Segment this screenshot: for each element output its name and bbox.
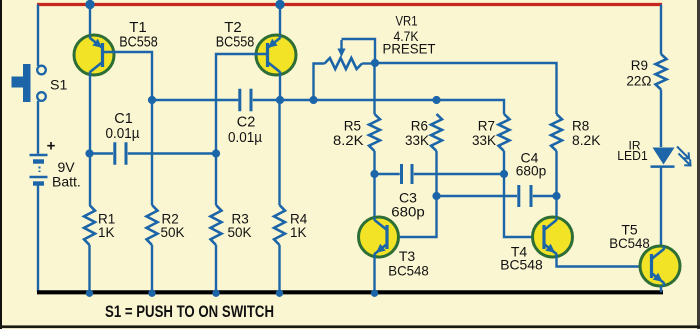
wire R2 down [151,100,153,205]
wire T4 emitter to T5 base [557,257,652,267]
svg-text:R8: R8 [572,119,589,134]
svg-text:680p: 680p [391,204,425,220]
node VR1 left junction [309,96,317,104]
resistor R9 22ohm [656,54,667,90]
label R9 [631,58,648,73]
wire rail to T1 emitter [89,5,91,36]
svg-text:C2: C2 [237,115,256,131]
wire VR1 left terminal [314,64,325,101]
svg-text:C1: C1 [114,111,133,127]
node R7 / C3 junction [500,170,508,178]
node T2 collector junction [276,96,284,104]
node VR1 / R5 junction [371,59,379,67]
node T3 emitter ground junction [371,290,378,297]
wire R5 bottom to T3 collector [373,151,375,217]
wire VR1 right terminal [362,62,375,64]
svg-text:33K: 33K [405,133,429,148]
wire +9V red top rail [37,3,662,6]
wire ground black bottom rail [37,290,663,294]
label R5 [344,119,361,134]
battery BT1 9V [30,155,48,184]
capacitor C4 680p [519,185,531,207]
label C3 value 680p [391,204,425,220]
node T2 base / C1 / R3 junction [212,149,220,157]
svg-text:VR1: VR1 [396,13,418,29]
wire R7 bottom to T4 base [504,151,544,237]
svg-text:0.01µ: 0.01µ [106,126,141,142]
label VR1 PRESET [383,41,436,57]
label R6 value 33K [405,133,429,148]
resistor R1 1K [84,205,95,245]
svg-text:8.2K: 8.2K [572,133,601,148]
transistor T3 BC548 [359,217,399,257]
svg-text:S1: S1 [50,78,67,94]
wire battery to ground rail [37,185,39,292]
node T2 emitter rail junction [275,0,284,9]
label 9V [58,159,76,175]
svg-text:BC548: BC548 [609,235,650,251]
label C2 value [228,130,263,146]
label T1 BC558 [119,34,158,51]
label R7 value 33K [472,133,496,148]
svg-text:R6: R6 [411,119,428,134]
wire T1 base to R2 node [103,52,153,100]
svg-text:LED1: LED1 [617,148,648,163]
capacitor C2 0.01u [240,89,251,112]
label R2 value 50K [161,225,185,240]
label Batt. [52,174,81,190]
resistor R2 50K [147,205,158,245]
svg-text:8.2K: 8.2K [333,133,364,148]
label R9 value 22ohm [626,74,651,89]
node T1 collector / C1 junction [85,149,93,157]
wire rail to switch S1 [37,5,39,67]
wire LED emission arrow 2 [679,154,691,166]
wire C3 right [414,173,504,175]
label R4 [290,212,308,227]
svg-text:PRESET: PRESET [383,41,436,57]
wire VR1 to R8 top [375,63,557,114]
svg-text:R7: R7 [478,119,495,134]
diode IR LED1 [651,148,675,167]
label T3 [399,248,416,264]
wire T3 base riser [387,196,437,237]
resistor R5 8.2K [369,114,380,151]
svg-text:22Ω: 22Ω [626,74,651,89]
svg-text:50K: 50K [228,225,252,240]
label C4 [521,150,539,166]
svg-text:BC548: BC548 [500,257,543,273]
label C3 [399,190,417,206]
label C1 value [106,126,141,142]
resistor R3 50K [211,205,222,245]
transistor T2 BC558 [256,35,296,75]
switch S1 [12,64,46,102]
resistor R8 8.2K [551,114,562,151]
label C1 [114,111,133,127]
label R7 [478,119,495,134]
label T5 BC548 [609,235,650,251]
svg-text:BC558: BC558 [119,34,158,51]
label T5 [621,222,638,238]
label R5 value 8.2K [333,133,364,148]
wire R2 to ground [151,245,153,292]
wire R4 top [278,100,280,205]
node R4 ground junction [276,290,283,297]
wire rail to T2 emitter [279,5,281,36]
wire R3 to ground [215,245,217,292]
label S1 = PUSH TO ON SWITCH [105,303,274,321]
svg-text:BC548: BC548 [388,263,429,279]
node R6 / C4 / T3 base junction [432,192,440,200]
svg-text:33K: 33K [472,133,496,148]
wire R4 to ground [278,245,280,292]
resistor R7 33K [499,114,510,151]
preset VR1 4.7K [325,40,363,69]
wire C2 to mid rail [253,100,504,114]
transistor T5 BC548 [640,246,680,286]
capacitor C1 0.01u [115,142,126,165]
wire VR1 wiper bracket [342,39,376,63]
svg-text:1K: 1K [290,225,307,240]
label R4 value 1K [290,225,307,240]
svg-text:0.01µ: 0.01µ [228,130,263,146]
wire R6 bottom to C4 node [435,151,437,196]
wire C1 left [90,152,114,154]
wire T2 base to R3 node [216,54,268,153]
wire C1 right [128,152,216,154]
wire R1 to ground [88,245,90,292]
node R3 ground junction [212,290,219,297]
svg-text:1K: 1K [98,225,115,240]
node R5 / C3 / T3 junction [370,170,378,178]
border frame right [697,0,700,329]
svg-text:R5: R5 [344,119,361,134]
wire rail to R9 [660,5,662,55]
label R8 [572,119,589,134]
svg-text:50K: 50K [161,225,185,240]
label VR1 value 4.7K [394,28,420,44]
label IR [629,139,641,153]
label S1 [50,78,67,94]
wire C4 left [437,195,518,197]
svg-text:R9: R9 [631,58,648,73]
wire T2 collector down [279,75,281,100]
label T4 [511,244,528,260]
label R2 [162,212,179,227]
label battery plus [47,138,56,155]
label C4 value 680p [516,163,547,179]
node R2 ground junction [148,290,155,297]
label R1 [98,212,115,227]
transistor T1 BC558 [74,35,114,75]
capacitor C3 680p [402,164,413,184]
label T3 BC548 [388,263,429,279]
border frame bottom [0,325,700,328]
node R8 / C4 / T4 collector junction [552,192,560,200]
label T2 [224,19,242,36]
wire T1 collector down [89,75,91,205]
svg-text:680p: 680p [516,163,547,179]
node R6 top junction [432,96,440,104]
label C2 [237,115,256,131]
label T2 BC558 [216,34,255,51]
resistor R6 33K [431,114,442,151]
label R3 value 50K [228,225,252,240]
wire C4 right [533,195,557,197]
label R3 [232,212,249,227]
wire T5 emitter to ground [660,286,662,292]
wire LED emission arrow 1 [677,147,689,159]
wire T3 emitter to ground [373,257,375,292]
wire R3 top [215,154,217,206]
svg-text:Batt.: Batt. [52,174,81,190]
wire T1 base to C2 [152,99,238,101]
border frame left [0,0,2,329]
svg-text:+: + [47,138,56,155]
wire R9 to LED anode [660,90,662,148]
label R8 value 8.2K [572,133,601,148]
transistor T4 BC548 [533,217,573,257]
label VR1 [396,13,418,29]
resistor R4 1K [274,205,285,245]
wire C3 left [375,173,400,175]
label LED1 [617,148,648,163]
node T1 emitter rail junction [85,0,94,9]
svg-text:S1 = PUSH TO ON SWITCH: S1 = PUSH TO ON SWITCH [105,303,274,321]
label R1 value 1K [98,225,115,240]
wire R5 top [373,63,375,114]
wire switch to battery [37,101,39,154]
svg-text:BC558: BC558 [216,34,255,51]
node T1 base junction [148,96,156,104]
label R6 [411,119,428,134]
wire LED cathode to T5 collector [660,167,662,246]
label T4 BC548 [500,257,543,273]
label T1 [129,19,147,36]
wire R8 bottom to T4 collector [555,151,557,217]
node R1 ground junction [86,290,93,297]
